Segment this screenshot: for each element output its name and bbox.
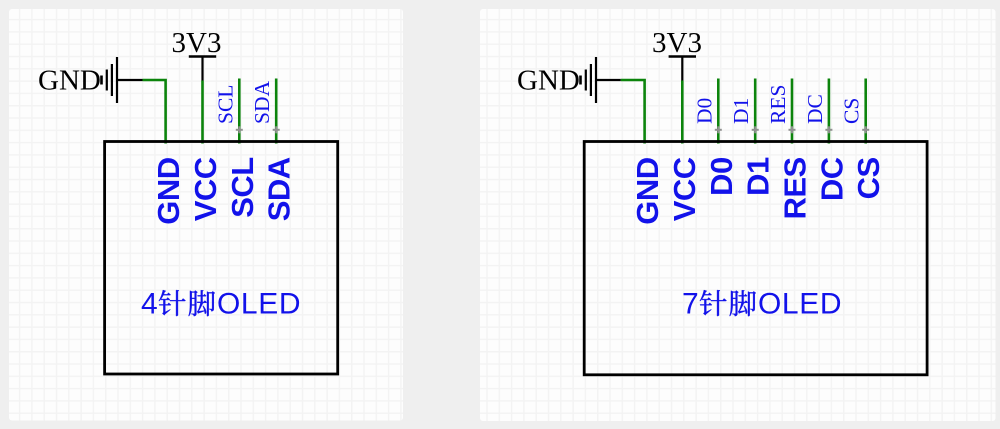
pin end marker RES	[789, 126, 796, 133]
IC body 4-pin OLED	[105, 142, 338, 375]
wire VCC net	[201, 81, 204, 144]
pin end marker SCL	[236, 126, 243, 133]
hanzi 脚	[189, 290, 215, 316]
wire DC net	[828, 79, 831, 144]
svg-text:DC: DC	[814, 157, 849, 201]
svg-text:SCL: SCL	[213, 85, 237, 124]
wire VCC net	[681, 81, 684, 144]
IC body 7-pin OLED	[584, 142, 927, 375]
svg-text:CS: CS	[851, 157, 886, 199]
right schematic panel background	[480, 9, 996, 421]
ground symbol bars	[581, 57, 597, 103]
hanzi 针	[700, 290, 727, 316]
pin end marker SDA	[273, 126, 280, 133]
wire D1 net	[754, 79, 757, 144]
svg-text:CS: CS	[840, 98, 864, 124]
ground symbol bars	[102, 57, 118, 103]
svg-text:4: 4	[141, 287, 158, 320]
svg-text:SDA: SDA	[262, 157, 297, 221]
pin end marker CS	[862, 126, 869, 133]
svg-text:VCC: VCC	[667, 157, 702, 221]
svg-text:VCC: VCC	[188, 157, 223, 221]
svg-text:RES: RES	[778, 157, 813, 219]
wire SCL net	[238, 79, 241, 144]
pin end marker D1	[752, 126, 759, 133]
svg-text:7: 7	[682, 287, 699, 320]
svg-text:D0: D0	[692, 98, 716, 124]
wire RES net	[791, 79, 794, 144]
svg-text:GND: GND	[630, 157, 665, 225]
pin end marker DC	[825, 126, 832, 133]
wire GND net	[621, 80, 645, 144]
svg-text:SCL: SCL	[225, 157, 260, 218]
svg-text:3V3: 3V3	[652, 27, 702, 59]
svg-text:D1: D1	[741, 157, 776, 196]
wire D0 net	[717, 79, 720, 144]
ground lead	[597, 79, 621, 81]
wire CS net	[864, 79, 867, 144]
hanzi 针	[159, 290, 186, 316]
svg-text:GND: GND	[151, 157, 186, 225]
ground lead	[118, 79, 143, 81]
left schematic panel background	[9, 9, 403, 421]
svg-text:OLED: OLED	[217, 287, 301, 320]
3V3 stem	[681, 57, 683, 81]
svg-text:SDA: SDA	[250, 81, 274, 124]
hanzi 脚	[730, 290, 756, 316]
svg-text:DC: DC	[803, 94, 827, 124]
3V3 stem	[201, 57, 203, 81]
svg-text:GND: GND	[38, 65, 101, 97]
svg-text:D1: D1	[729, 98, 753, 124]
3V3 power bar	[189, 55, 216, 58]
wire GND net	[143, 80, 166, 144]
svg-text:OLED: OLED	[758, 287, 842, 320]
wire SDA net	[275, 79, 278, 144]
svg-text:D0: D0	[704, 157, 739, 196]
svg-text:3V3: 3V3	[172, 27, 222, 59]
3V3 power bar	[669, 55, 696, 58]
svg-text:GND: GND	[517, 65, 580, 97]
pin end marker D0	[715, 126, 722, 133]
svg-text:RES: RES	[766, 85, 790, 124]
